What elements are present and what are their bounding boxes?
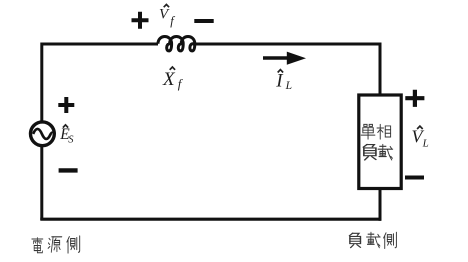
bottom-right label: 側 (side) [384,232,397,248]
load box text: 單 (single) [361,124,375,139]
bottom-right label: 載 (carry) [366,232,380,247]
plus sign (load VL) [405,90,424,107]
minus sign (source ES) [59,168,78,172]
load box (single-phase load) [359,95,401,189]
load box text: 載 (load-2) [378,144,393,160]
current arrow IL [263,56,290,59]
load box text: 負 (load-1) [363,144,376,160]
AC source ES circle [31,122,55,146]
plus sign (Vf, left of inductor) [132,12,149,29]
svg-text:L: L [422,137,429,149]
label VL [412,126,429,149]
bottom-left label: 電 (power) [32,238,43,253]
label IL [275,70,292,93]
wire: left vertical (source branch) [40,43,43,221]
svg-text:X: X [162,69,176,90]
wire: right vertical lower (load to bottom) [379,188,382,221]
inductor Xf coil [158,37,195,51]
load box text: 相 (phase) [377,124,391,139]
bottom-left label: 側 (side) [67,236,80,253]
bottom-right label: 負 (load) [349,233,360,248]
bottom-left label: 源 (source) [48,237,62,252]
wire: bottom horizontal [40,218,381,221]
minus sign (load VL) [405,176,424,180]
AC source sine wave [33,129,53,139]
wire: right vertical upper (to load) [379,43,382,97]
label Xf [162,67,184,91]
svg-text:L: L [285,80,292,92]
wire: top horizontal (left part, source to inductor) [42,43,158,46]
minus sign (Vf, right of inductor) [194,19,213,23]
label Vf [159,5,175,29]
wire: top horizontal (inductor to right corner) [193,43,381,46]
plus sign (source ES) [58,97,74,113]
label ES [59,125,74,145]
svg-text:S: S [68,134,74,145]
